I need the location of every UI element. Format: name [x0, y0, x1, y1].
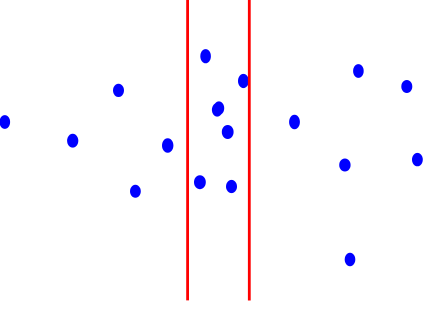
blue dot 12 — [194, 175, 206, 189]
blue dot 14 — [345, 253, 356, 266]
blue dot 11 — [289, 115, 300, 129]
blue dot 4 — [130, 185, 141, 198]
blue dot 2 — [67, 134, 78, 148]
red vertical line 1 (left boundary) — [186, 0, 189, 300]
blue dot 3 — [113, 84, 124, 97]
blue dot 16 — [401, 80, 412, 93]
blue dot 8 — [222, 125, 234, 139]
blue dot 6 — [200, 49, 211, 63]
blue dot 7a (overlapping pair, lower-left) — [212, 103, 223, 117]
blue dot 13 — [339, 159, 350, 172]
red vertical line 2 (right boundary) — [248, 0, 251, 301]
blue dot 15 — [353, 64, 364, 78]
blue dot 9 — [226, 180, 237, 193]
blue dot 7b (overlapping pair, upper-right) — [214, 101, 225, 115]
blue dot 10 — [238, 74, 249, 88]
blue dot 17 (right edge) — [412, 153, 423, 166]
blue dot 1 (left edge) — [0, 115, 10, 129]
blue dot 5 — [162, 138, 173, 152]
